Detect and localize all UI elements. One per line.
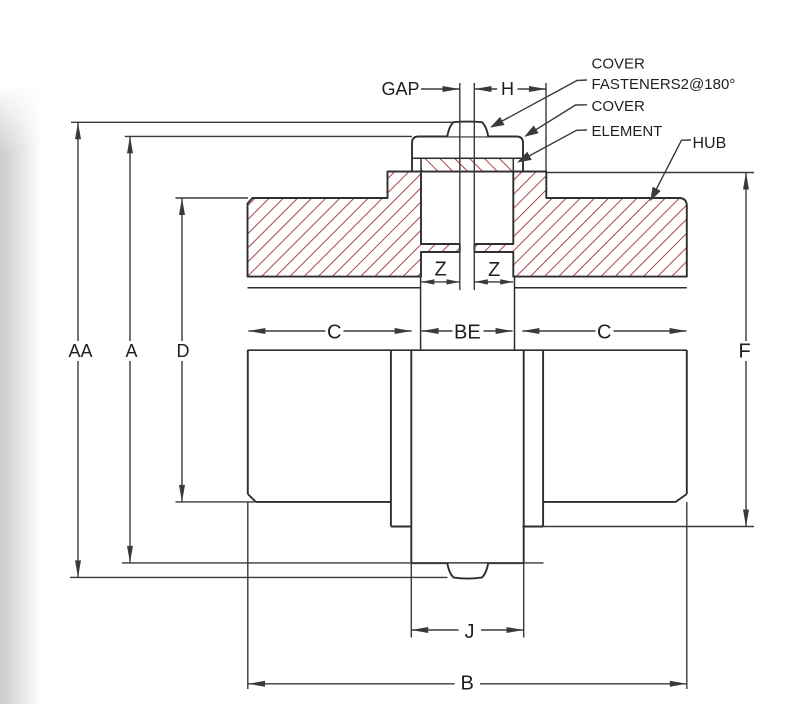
wire left ring bottom silhouette bbox=[391, 526, 411, 528]
svg-text:Z: Z bbox=[435, 259, 447, 281]
dimension Z-left line bbox=[421, 281, 459, 283]
dimension AA vertical line bbox=[77, 122, 79, 341]
svg-text:HUB: HUB bbox=[693, 135, 727, 152]
svg-text:J: J bbox=[465, 621, 475, 643]
wire right flange inner face bbox=[514, 277, 516, 350]
wire cover bottom silhouette bbox=[411, 562, 523, 564]
wire B right extension bbox=[686, 502, 688, 689]
dimension C-left line bbox=[248, 330, 325, 332]
cover inner top surface line bbox=[412, 157, 523, 159]
dimension GAP leader bbox=[421, 88, 460, 90]
dimension H line bbox=[475, 88, 498, 90]
dimension B line bbox=[248, 683, 455, 685]
svg-text:H: H bbox=[501, 79, 514, 99]
wire axis split line bbox=[248, 349, 687, 351]
wire A bottom extension bbox=[122, 562, 544, 564]
dimension J line bbox=[411, 629, 458, 631]
element ELEMENT hatched grid strip bbox=[421, 158, 513, 171]
hub HUB-right hatched cross-section bbox=[474, 172, 686, 277]
wire left hub bottom chamfer bbox=[248, 494, 256, 502]
wire J right extension bbox=[523, 563, 525, 637]
wire right hub bottom chamfer bbox=[676, 494, 687, 502]
wire D top extension bbox=[176, 197, 249, 199]
svg-text:F: F bbox=[739, 341, 751, 363]
dimension A vertical line bbox=[129, 136, 131, 341]
node gap-right shaft end line bbox=[473, 83, 475, 290]
wire A top extension / cover top bbox=[125, 135, 412, 137]
svg-text:COVER: COVER bbox=[592, 98, 646, 115]
dimension C-right line bbox=[522, 330, 595, 332]
dimension Z-right line bbox=[475, 281, 513, 283]
wire J left extension bbox=[410, 563, 412, 637]
svg-text:ELEMENT: ELEMENT bbox=[592, 123, 663, 140]
svg-text:C: C bbox=[327, 321, 341, 343]
wire right ring edge lower bbox=[542, 350, 544, 527]
hub HUB-left hatched cross-section bbox=[248, 172, 460, 277]
wire F bottom extension bbox=[543, 526, 754, 528]
fastener top cover-bolt head bbox=[447, 122, 488, 137]
wire right barrel bottom silhouette bbox=[544, 501, 676, 503]
wire D bottom extension bbox=[176, 501, 257, 503]
svg-text:Z: Z bbox=[488, 259, 500, 281]
svg-text:AA: AA bbox=[69, 341, 93, 361]
wire left flange inner face bbox=[420, 277, 422, 350]
svg-text:BE: BE bbox=[454, 321, 481, 343]
wire cover left edge lower bbox=[410, 350, 412, 563]
dimension BE line bbox=[422, 330, 453, 332]
wire hub-ring top edge bbox=[388, 171, 547, 173]
wire H extension line bbox=[545, 83, 547, 172]
svg-text:GAP: GAP bbox=[382, 79, 420, 99]
wire left hub keyway line bbox=[248, 287, 421, 289]
label ELEMENT leader bbox=[519, 130, 588, 162]
wire right ring bottom silhouette bbox=[523, 526, 544, 528]
dimension F vertical line bbox=[745, 173, 747, 342]
svg-text:C: C bbox=[597, 321, 611, 343]
wire B left extension bbox=[247, 502, 249, 689]
wire right hub keyway line bbox=[515, 287, 687, 289]
label COVER leader bbox=[526, 105, 588, 136]
cover COVER upper section outline bbox=[412, 137, 523, 172]
svg-text:B: B bbox=[461, 673, 474, 695]
dimension D vertical line bbox=[181, 198, 183, 341]
wire AA top extension bbox=[71, 121, 454, 123]
svg-text:D: D bbox=[177, 341, 190, 361]
svg-text:COVER: COVER bbox=[592, 56, 646, 73]
wire cover right edge lower bbox=[523, 350, 525, 563]
wire right hub outer face lower bbox=[686, 350, 688, 494]
label HUB leader bbox=[651, 140, 691, 200]
label COVER-FASTENERS leader bbox=[492, 80, 588, 127]
fastener bottom cover-bolt head bbox=[447, 563, 488, 578]
node gap-left shaft end line bbox=[459, 83, 461, 290]
wire AA bottom extension bbox=[70, 576, 448, 578]
wire left hub outer face lower bbox=[247, 350, 249, 494]
wire F top extension bbox=[546, 172, 754, 174]
svg-text:A: A bbox=[126, 341, 138, 361]
svg-text:FASTENERS2@180°: FASTENERS2@180° bbox=[592, 76, 736, 93]
wire left barrel bottom silhouette bbox=[256, 501, 391, 503]
wire left ring edge lower bbox=[390, 350, 392, 527]
